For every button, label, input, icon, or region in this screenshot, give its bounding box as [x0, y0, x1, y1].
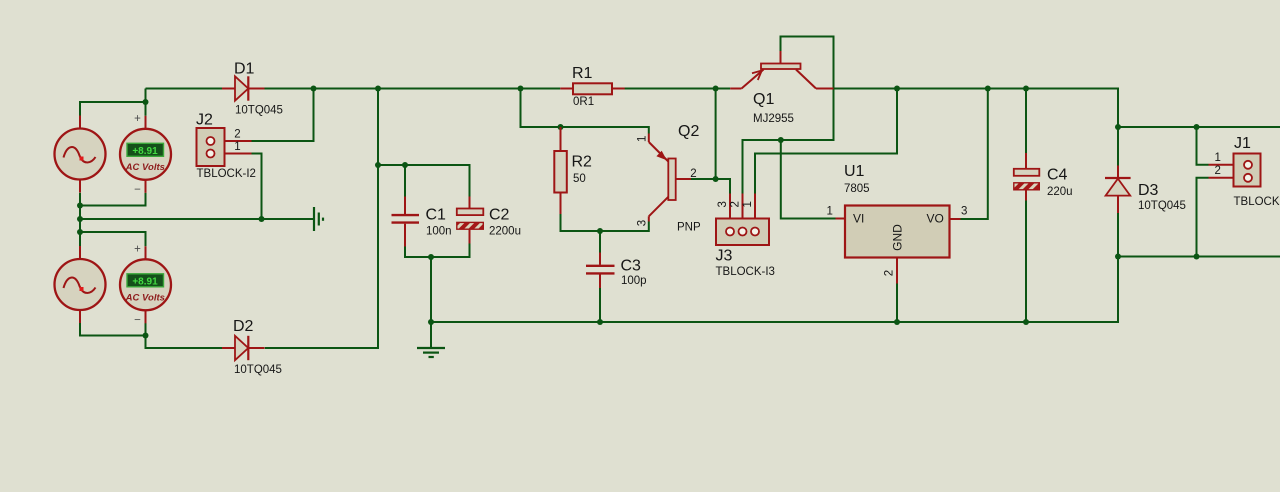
wire Q2 base to J3 pin3 [716, 179, 730, 194]
wire C1 top lead riser [404, 165, 406, 197]
wire C4 bottom lead drop [1025, 200, 1027, 323]
capacitor C1 100n [392, 197, 452, 247]
resistor R1 0R1 [560, 65, 624, 108]
wire V2 bottom to D2 anode [146, 336, 223, 349]
svg-text:1: 1 [637, 136, 649, 142]
svg-text:2: 2 [234, 128, 240, 140]
node J Q2 base [713, 176, 719, 182]
svg-text:1: 1 [827, 205, 833, 217]
svg-text:10TQ045: 10TQ045 [234, 364, 282, 376]
wire C1 C2 bottom branch [405, 243, 470, 257]
svg-text:D2: D2 [233, 318, 254, 335]
node S C4 gnd [1023, 319, 1029, 325]
wire AC2 bottom to V2 bottom [80, 322, 146, 335]
svg-text:1: 1 [234, 141, 240, 153]
svg-text:1: 1 [1215, 152, 1221, 164]
wire U1 VO riser to rail [961, 89, 988, 220]
wire top rail left segment [146, 88, 223, 90]
wire U1 VI branch [781, 140, 836, 219]
svg-text:+8.91: +8.91 [132, 276, 158, 287]
wire R2 top net from rail [521, 89, 649, 134]
svg-text:2: 2 [730, 201, 742, 207]
wire AC1 top to V1 top [80, 102, 146, 116]
ground (rectifier common) [417, 322, 445, 357]
node K base loop [778, 137, 784, 143]
wire D2 cathode to rectifier node [265, 89, 378, 349]
svg-text:J3: J3 [716, 247, 733, 264]
transistor Q2 PNP (driver) [637, 123, 701, 234]
wire D3 J1 pin1 branch [1118, 126, 1280, 128]
wire top rail R1-to-Q1 segment [625, 88, 731, 90]
node Z ct-V2 [77, 229, 83, 235]
svg-text:VO: VO [927, 212, 944, 226]
node T D3 top [1115, 124, 1121, 130]
svg-text:7805: 7805 [844, 183, 870, 195]
svg-text:50: 50 [573, 173, 586, 185]
node X ct-V1 [77, 203, 83, 209]
node G rail-VO [985, 86, 991, 92]
wire J2 pin2 net [252, 89, 314, 142]
svg-text:10TQ045: 10TQ045 [235, 105, 283, 117]
node F rail-J3p1 [894, 86, 900, 92]
svg-text:2: 2 [1215, 165, 1221, 177]
node E rail-Q2base [713, 86, 719, 92]
svg-text:TBLOCK-I2: TBLOCK-I2 [197, 168, 256, 180]
node H rail-C4 [1023, 86, 1029, 92]
node D rail-R2 [518, 86, 524, 92]
svg-text:+8.91: +8.91 [132, 146, 158, 157]
terminal block J3 TBLOCK-I3 [716, 194, 775, 278]
AC source VS2 [55, 246, 106, 323]
node V D3 bottom [1115, 254, 1121, 260]
svg-text:3: 3 [961, 205, 967, 217]
svg-text:C3: C3 [621, 257, 642, 274]
diode D2 [222, 318, 282, 376]
svg-text:100n: 100n [426, 225, 452, 237]
svg-text:PNP: PNP [677, 222, 701, 234]
svg-text:3: 3 [637, 220, 649, 226]
svg-text:C4: C4 [1047, 167, 1068, 184]
regulator U1 7805 [827, 163, 968, 284]
wire J1 pin1 drop [1197, 127, 1209, 165]
node Y ct-gnd [77, 216, 83, 222]
svg-text:2: 2 [884, 270, 896, 276]
svg-text:C2: C2 [489, 207, 510, 224]
svg-text:GND: GND [891, 224, 905, 251]
svg-text:100p: 100p [621, 275, 647, 287]
wire center-tap to V1 minus [80, 193, 146, 206]
AC voltmeter V1 [120, 113, 171, 196]
wire C3 bottom to bottom rail [599, 275, 601, 322]
wire center-tap column [79, 193, 81, 246]
node M C1 top [402, 162, 408, 168]
svg-text:AC Volts: AC Volts [125, 292, 165, 303]
node Q C3 gnd [597, 319, 603, 325]
svg-text:2: 2 [690, 168, 696, 180]
wire C3 top lead riser [599, 231, 601, 253]
svg-text:TBLOCK-I3: TBLOCK-I3 [716, 266, 775, 278]
node R U1 gnd [894, 319, 900, 325]
terminal block J1 TBLOCK-I2 (clipped) [1209, 135, 1280, 208]
svg-text:J1: J1 [1234, 135, 1251, 152]
svg-text:−: − [134, 184, 141, 196]
wire U1 GND to bottom rail [896, 284, 898, 323]
svg-text:D3: D3 [1138, 182, 1159, 199]
svg-text:−: − [134, 314, 141, 326]
diode D1 [222, 60, 283, 116]
wire J3 pin1 to output rail [755, 89, 897, 194]
resistor R2 50 [554, 127, 592, 214]
node I R2 top [558, 124, 564, 130]
transistor Q1 MJ2955 (PNP, horizontal) [730, 51, 833, 125]
node O gnd rail [428, 319, 434, 325]
svg-text:2200u: 2200u [489, 225, 521, 237]
terminal block J2 TBLOCK-I2 [196, 111, 256, 180]
svg-text:D1: D1 [234, 60, 255, 77]
wire bottom right branch [1118, 256, 1280, 258]
node A (V1 plus) [143, 99, 149, 105]
node AB J2p1-gnd [259, 216, 265, 222]
wire top rail D1-to-R1 segment [265, 88, 561, 90]
wire J1 pin2 drop [1197, 178, 1209, 257]
svg-text:3: 3 [717, 201, 729, 207]
wire center-tap to V2 plus [80, 232, 146, 246]
node L rect-C1C2 [375, 162, 381, 168]
capacitor C3 100p [586, 253, 647, 289]
svg-text:AC Volts: AC Volts [125, 162, 165, 173]
wire R2 bottom to Q2 collector [561, 214, 649, 232]
wire V1 top riser to rail [145, 89, 147, 116]
AC voltmeter V2 [120, 243, 171, 326]
wire C1C2 junction to bottom rail [430, 257, 432, 322]
node C rail-rect [375, 86, 381, 92]
capacitor C4 220u (polarised) [1014, 153, 1073, 201]
capacitor C2 2200u (polarised) [457, 197, 521, 244]
svg-text:Q1: Q1 [753, 91, 774, 108]
AC source VS1 [55, 116, 106, 193]
svg-text:R1: R1 [572, 65, 593, 82]
svg-text:VI: VI [853, 212, 864, 226]
wire center-tap ground branch [80, 218, 313, 220]
svg-text:J2: J2 [196, 111, 213, 128]
svg-text:0R1: 0R1 [573, 96, 594, 108]
svg-text:Q2: Q2 [678, 123, 699, 140]
svg-text:220u: 220u [1047, 186, 1073, 198]
svg-text:C1: C1 [426, 207, 447, 224]
svg-text:MJ2955: MJ2955 [753, 113, 794, 125]
wire Q2 base to rail drop [691, 89, 716, 180]
wire C4 top lead riser [1025, 89, 1027, 161]
wire top rail right segment [431, 89, 1118, 323]
node N C1C2 bottom [428, 254, 434, 260]
svg-text:TBLOCK-I2: TBLOCK-I2 [1234, 196, 1280, 208]
ground (center-tap, rotated) [314, 207, 323, 231]
svg-text:U1: U1 [844, 163, 865, 180]
node B rail-J2 [311, 86, 317, 92]
svg-text:+: + [134, 113, 141, 125]
svg-text:1: 1 [742, 201, 754, 207]
diode D3 [1105, 166, 1186, 214]
svg-text:10TQ045: 10TQ045 [1138, 200, 1186, 212]
svg-text:+: + [134, 243, 141, 255]
node P C3 top [597, 228, 603, 234]
wire J2 pin1 net [252, 154, 262, 220]
node AA V2 bottom [143, 333, 149, 339]
wire J3 pin2 to Q1 base loop [743, 37, 834, 194]
svg-text:R2: R2 [572, 153, 593, 170]
node W J1 p2 [1194, 254, 1200, 260]
node U J1 p1 [1194, 124, 1200, 130]
wire C1 C2 top branch [378, 165, 470, 197]
